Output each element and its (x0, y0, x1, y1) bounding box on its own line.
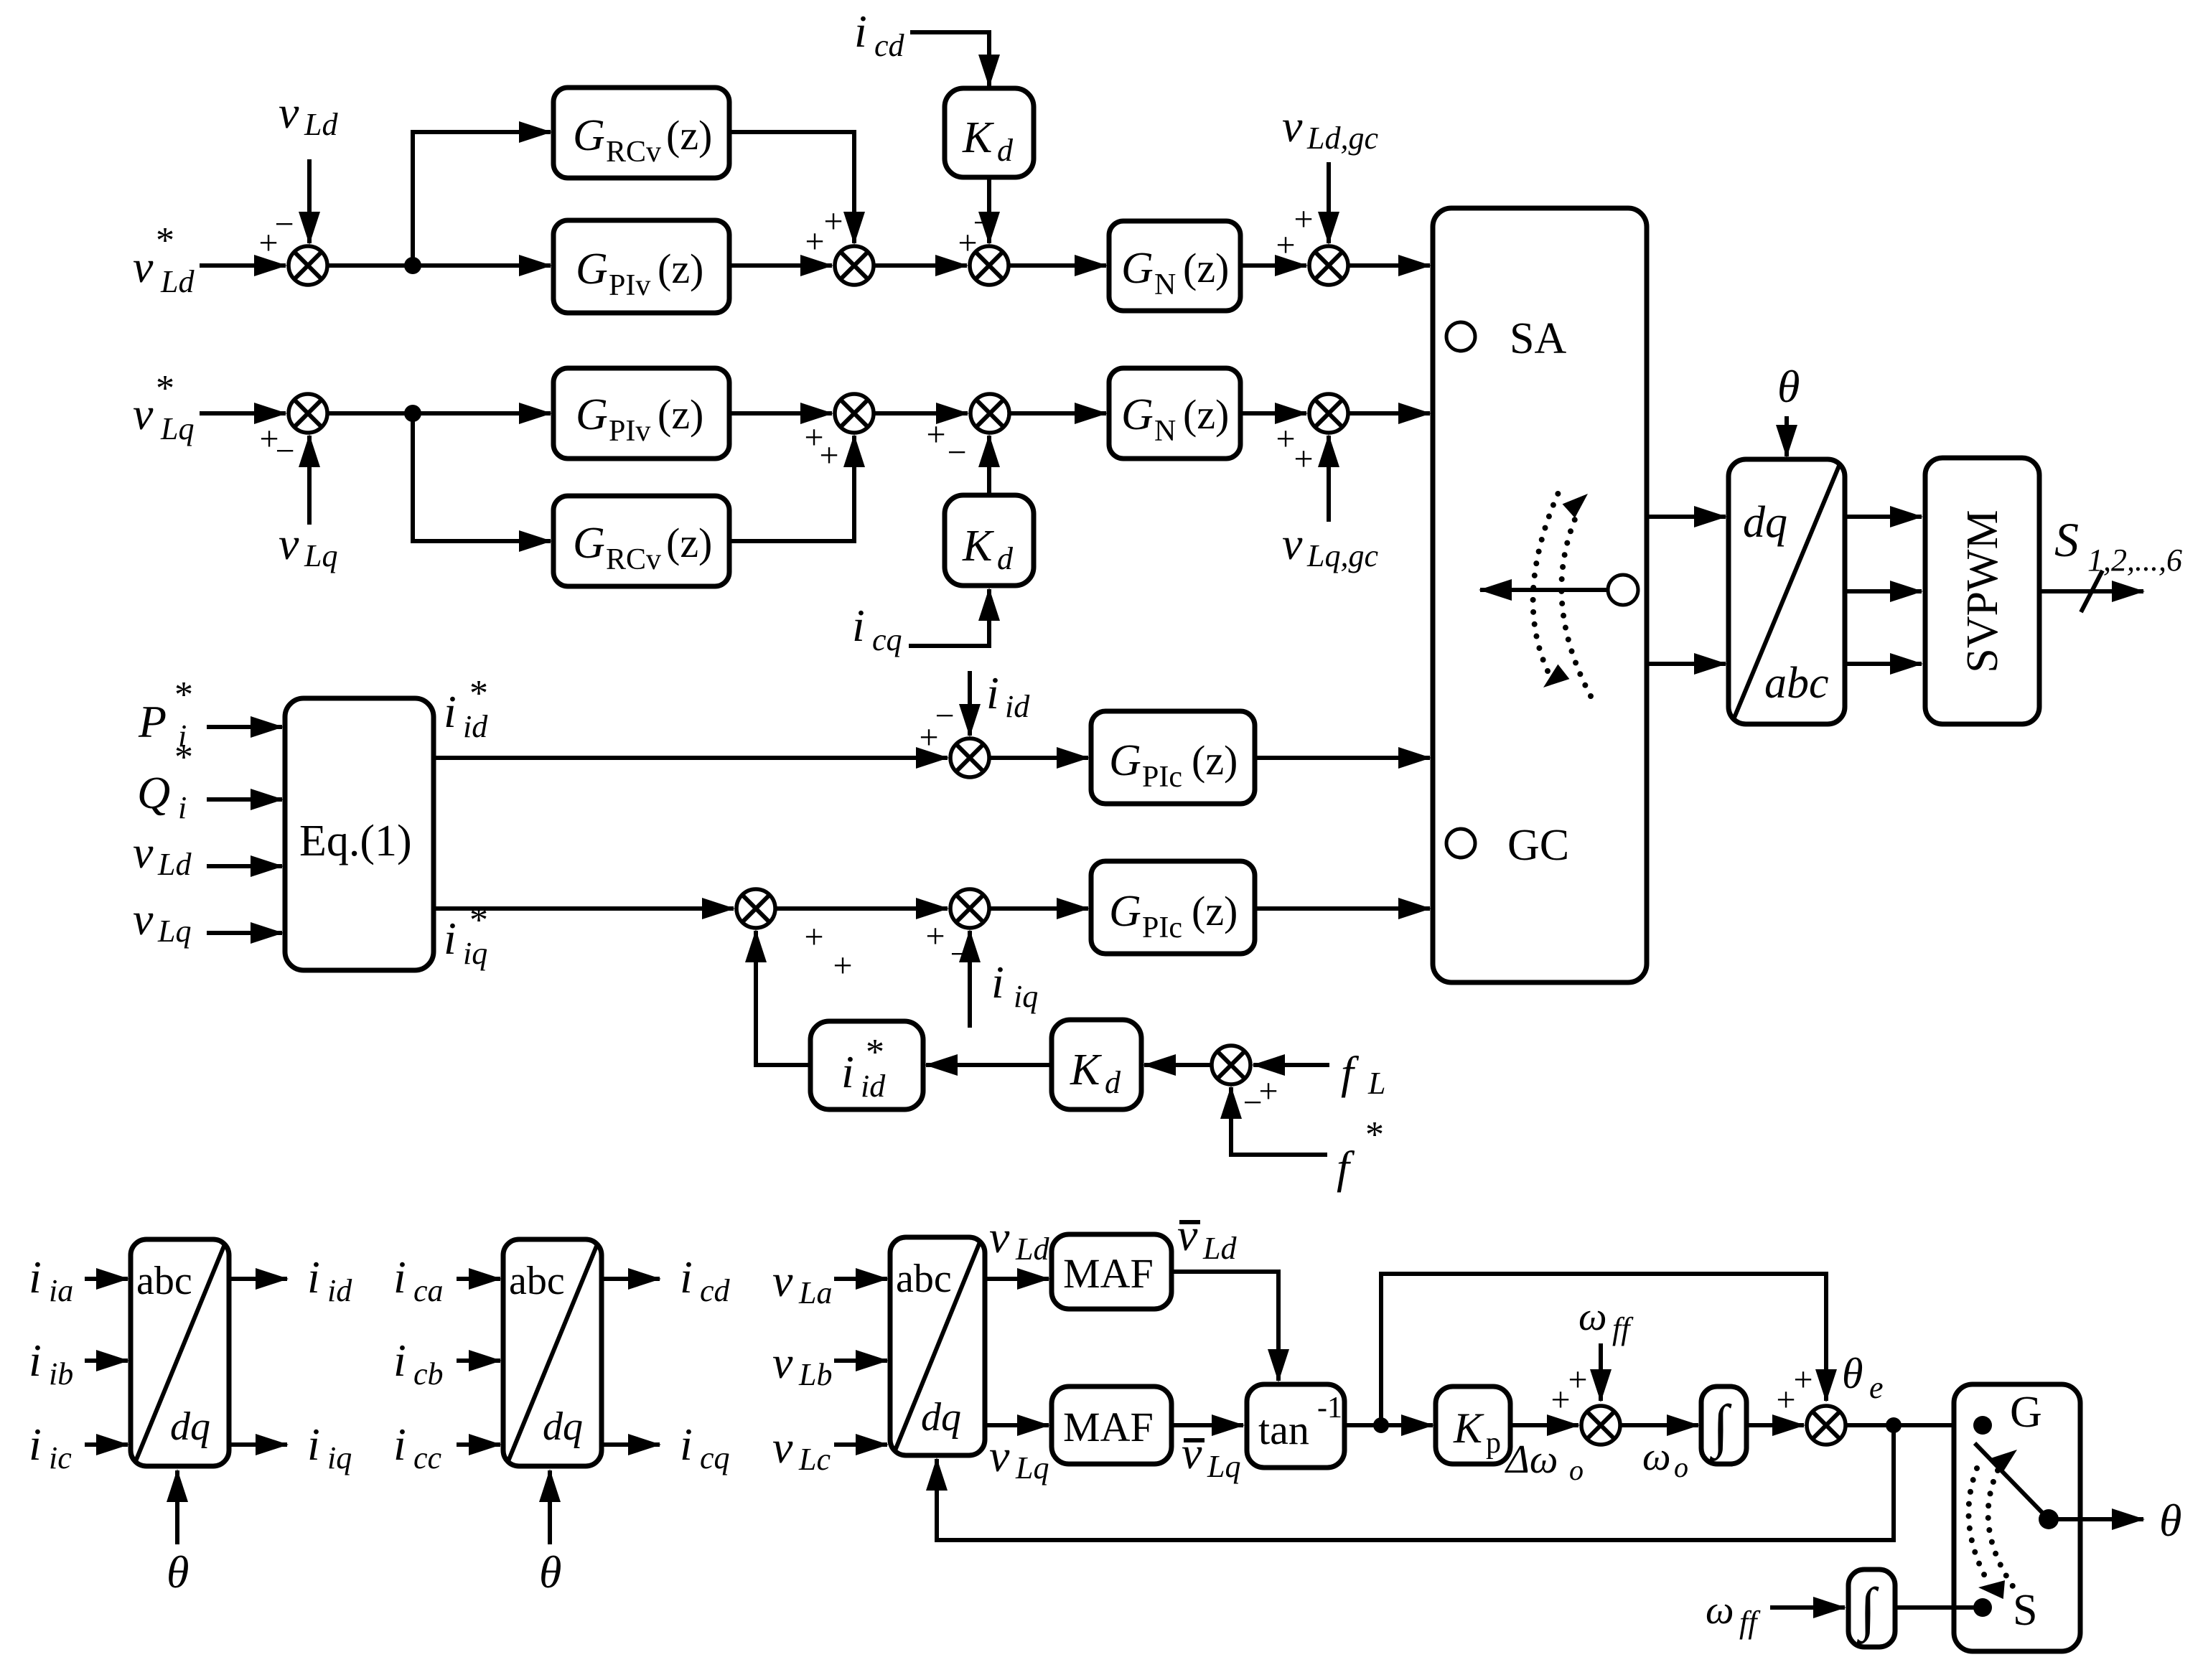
node label omega_o (1642, 1435, 1688, 1483)
wire MAF upper to tan-1 (down) (1171, 1272, 1278, 1381)
svg-text:+: + (1294, 200, 1313, 238)
svg-text:+: + (804, 918, 823, 956)
svg-text:Δω: Δω (1505, 1437, 1558, 1482)
node label v_Lq (block3 output) (989, 1430, 1049, 1486)
svg-text:Ld: Ld (160, 264, 195, 299)
node label f* (1337, 1114, 1384, 1193)
svg-text:Ld: Ld (1202, 1231, 1237, 1266)
svg-text:Lb: Lb (798, 1357, 832, 1392)
wire selector to dq/abc lower (1647, 662, 1726, 666)
svg-text:N: N (1154, 268, 1176, 301)
wire S10 to switch G contact (1846, 1423, 1975, 1427)
wire i_iq up into S7 (968, 931, 972, 1028)
summing junction S8 (1212, 1046, 1278, 1122)
svg-text:ca: ca (413, 1273, 444, 1308)
wire integrator lower to switch S contact (1895, 1605, 1975, 1610)
node label i_iq (991, 957, 1038, 1014)
svg-text:i: i (29, 1252, 42, 1303)
svg-text:θ: θ (1842, 1350, 1863, 1397)
wire v_Lc into abc/dq block3 (834, 1442, 887, 1447)
block dq/abc transform (1729, 459, 1845, 724)
svg-text:−: − (1243, 1084, 1262, 1122)
svg-text:θ: θ (1777, 361, 1800, 412)
svg-text:d: d (997, 133, 1014, 168)
wire S7 to block G_PIc row2 (988, 906, 1088, 911)
svg-text:θ: θ (167, 1547, 189, 1597)
block G_PIv(z) row2 (553, 368, 729, 459)
wire G_PIc row2 to mode selector (1255, 906, 1430, 911)
wire integrator to theta_e summing junction S10 (1746, 1423, 1804, 1427)
wire branch up to G_RCv row1 (413, 132, 551, 266)
block K_d droop (1052, 1020, 1141, 1109)
svg-text:o: o (1569, 1454, 1584, 1486)
svg-text:tan: tan (1258, 1407, 1309, 1453)
svg-text:dq: dq (1743, 498, 1787, 547)
svg-text:id: id (327, 1273, 352, 1308)
svg-text:abc: abc (1764, 659, 1829, 708)
switch dotted arc upper (1968, 1442, 2023, 1577)
svg-text:cd: cd (700, 1273, 731, 1308)
svg-text:ia: ia (49, 1273, 73, 1308)
summing junction S4b (1276, 394, 1348, 478)
svg-text:+: + (925, 917, 945, 955)
wire summing junction S8 to K_d droop (1144, 1063, 1212, 1067)
wire i_cq to block K_d lower (909, 589, 989, 646)
svg-text:Lc: Lc (798, 1442, 831, 1477)
selector contact GC (1446, 821, 1569, 870)
wire i_id down into S5 (968, 671, 972, 736)
svg-text:v: v (279, 518, 299, 569)
block tan-1 (1247, 1384, 1344, 1468)
svg-text:iq: iq (1014, 979, 1038, 1014)
block G_N(z) row1 (1109, 221, 1240, 311)
node label v_Ld (279, 87, 338, 142)
block mode selector SA/GC (1433, 208, 1647, 982)
node label f_L (1341, 1047, 1385, 1101)
block abc/dq transform 2 (503, 1239, 602, 1466)
wire i_cb into abc/dq block2 (457, 1358, 500, 1363)
svg-text:PIc: PIc (1142, 761, 1182, 794)
selector dotted arc upper (1533, 489, 1570, 695)
svg-text:p: p (1486, 1427, 1501, 1460)
wire i_ia into abc/dq block1 (85, 1277, 128, 1281)
node label i_id (block1 output) (307, 1252, 352, 1308)
svg-text:i: i (680, 1252, 693, 1303)
summing junction S3 (958, 204, 1009, 285)
block SVPWM (1925, 458, 2039, 724)
svg-text:i: i (393, 1419, 406, 1470)
wire G_N row1 to summing junction S4 (1240, 263, 1306, 268)
wire omega_ff into integrator lower (1770, 1605, 1845, 1610)
wire i_cc into abc/dq block2 (457, 1442, 500, 1447)
wire theta into dq/abc block (1785, 416, 1789, 456)
svg-text:cq: cq (700, 1440, 730, 1475)
svg-text:v: v (133, 241, 154, 292)
svg-text:+: + (1568, 1361, 1587, 1399)
svg-text:(z): (z) (1192, 737, 1238, 784)
wire theta feedback down-left to block3 (937, 1425, 1894, 1540)
node label i_cd (854, 6, 905, 63)
node label i_ib (29, 1335, 73, 1392)
svg-text:i: i (178, 790, 187, 825)
svg-text:+: + (1276, 420, 1295, 458)
svg-text:θ: θ (2159, 1495, 2181, 1546)
wire v_Lb into abc/dq block3 (834, 1358, 887, 1363)
wire G_PIv row1 to S2 (729, 263, 832, 268)
wire i_ib into abc/dq block1 (85, 1358, 128, 1363)
wire v_La into abc/dq block3 (834, 1277, 887, 1281)
wire v_Ld into Eq.(1) (207, 864, 282, 868)
svg-text:+: + (1294, 440, 1313, 478)
junction node after S10 (1886, 1417, 1902, 1433)
block K_p (1436, 1386, 1510, 1464)
wire droop block to S6 (756, 931, 810, 1065)
svg-text:S: S (2054, 512, 2079, 567)
svg-text:v: v (1282, 518, 1303, 569)
svg-text:abc: abc (509, 1259, 565, 1303)
block abc/dq transform 3 (890, 1237, 985, 1455)
svg-text:G: G (576, 390, 608, 439)
svg-text:Ld: Ld (1015, 1231, 1049, 1267)
svg-text:−: − (935, 697, 954, 735)
svg-text:v: v (772, 1255, 793, 1306)
svg-text:Lq: Lq (1015, 1450, 1049, 1486)
wire theta into block1 (175, 1470, 179, 1544)
switch contact S (1973, 1586, 2037, 1635)
wire f_L into S8 (1253, 1063, 1329, 1067)
wire i_ca into abc/dq block2 (457, 1277, 500, 1281)
svg-text:θ: θ (539, 1547, 561, 1597)
block G_RCv(z) row1 (553, 88, 729, 178)
svg-text:abc: abc (136, 1259, 192, 1303)
svg-text:Q: Q (137, 767, 170, 818)
svg-text:o: o (1674, 1451, 1688, 1483)
svg-text:id: id (463, 709, 488, 744)
svg-text:i: i (29, 1335, 42, 1386)
block i*_id droop (810, 1021, 923, 1109)
svg-text:Lq: Lq (157, 914, 191, 949)
junction node after S1 (404, 257, 421, 274)
svg-text:−: − (275, 432, 294, 470)
wire K_d upper down into S3 (987, 177, 991, 243)
node label i_cc (393, 1419, 442, 1475)
svg-text:v: v (1177, 1209, 1198, 1260)
node label S_1,2,...,6 (2054, 512, 2182, 578)
node label i_cb (393, 1335, 444, 1392)
svg-text:∫: ∫ (1856, 1576, 1879, 1644)
wire S1b to block G_PIv row2 (327, 411, 551, 416)
svg-text:v: v (133, 893, 154, 944)
svg-text:−: − (973, 204, 992, 242)
svg-text:Ld: Ld (157, 847, 192, 882)
wire dq/abc to SVPWM line2 (1845, 589, 1922, 593)
svg-text:Lq: Lq (1207, 1449, 1240, 1484)
svg-text:−: − (947, 433, 966, 471)
wire S2 to summing junction S3 (874, 263, 967, 268)
svg-text:PIv: PIv (609, 415, 650, 448)
svg-text:i: i (444, 686, 457, 737)
svg-text:G: G (573, 111, 605, 160)
node label v_Ld,gc (1282, 100, 1378, 156)
svg-text:id: id (861, 1069, 886, 1104)
svg-text:(z): (z) (1192, 888, 1238, 934)
node label theta_e (1842, 1350, 1884, 1405)
wire S4 to mode selector block (1348, 263, 1430, 268)
svg-text:N: N (1154, 415, 1176, 448)
wire block3 output v_Ld to MAF upper (985, 1277, 1049, 1281)
svg-text:*: * (866, 1032, 884, 1073)
svg-text:+: + (1793, 1361, 1813, 1399)
svg-text:iq: iq (463, 936, 487, 971)
node label i_cq (852, 600, 902, 657)
svg-text:cq: cq (872, 622, 902, 657)
wire G_RCv row1 to summing junction S2 (729, 132, 854, 243)
wire selector to dq/abc upper (1647, 515, 1726, 519)
summing junction S2b (804, 394, 874, 474)
svg-text:e: e (1869, 1370, 1884, 1405)
svg-text:*: * (174, 737, 193, 778)
svg-text:i: i (393, 1252, 406, 1303)
wire v*_Lq input to summing junction S1b (200, 411, 286, 416)
svg-text:(z): (z) (658, 245, 703, 292)
switch arm with pivot (1975, 1443, 2059, 1529)
wire G_PIv row2 to summing junction S2b (729, 411, 832, 416)
summing junction S7 (925, 889, 989, 973)
selector switch arm (1480, 575, 1638, 605)
wire tan-1 node up to theta_e junction (feed-forward) (1381, 1274, 1826, 1425)
block G_N(z) row2 (1109, 368, 1240, 459)
block abc/dq transform 1 (131, 1239, 229, 1466)
node label vbar_Ld (1177, 1209, 1237, 1266)
svg-text:v: v (133, 827, 154, 878)
svg-text:Ld: Ld (304, 107, 338, 142)
wire v_Lq into Eq.(1) (207, 931, 282, 935)
node label v_Ld (Eq input) (133, 827, 192, 882)
wire K_d lower up into S3b (987, 436, 991, 495)
summing junction S4 (1276, 200, 1348, 285)
svg-text:G: G (1121, 390, 1154, 439)
svg-text:i: i (841, 1046, 854, 1097)
svg-text:Lq: Lq (160, 411, 194, 446)
node label v*_Ld (133, 220, 195, 299)
block MAF upper (1052, 1234, 1171, 1309)
node label i*_id (Eq output upper) (444, 673, 488, 744)
wire block1 output i_id (229, 1277, 287, 1281)
svg-text:RCv: RCv (606, 543, 661, 576)
svg-text:iq: iq (327, 1440, 352, 1475)
node label P*_i (138, 675, 193, 754)
svg-text:v: v (133, 388, 154, 439)
node label v_Ld (block3 output) (989, 1211, 1049, 1267)
switch dotted arc lower (1978, 1470, 2016, 1599)
wire f* up into S8 (1231, 1087, 1327, 1155)
summing junction S6 (736, 889, 853, 985)
svg-text:G: G (1121, 244, 1154, 293)
wire G_RCv row2 up into S2b (729, 436, 854, 541)
node label i*_iq (Eq output lower) (444, 900, 488, 971)
switch contact G (1973, 1388, 2042, 1437)
svg-text:dq: dq (543, 1404, 583, 1449)
svg-text:cd: cd (874, 28, 905, 63)
node label Delta_omega_o (1505, 1437, 1584, 1486)
wire K_p to omega summing junction S9 (1510, 1423, 1578, 1427)
node label i_ia (29, 1252, 73, 1308)
wire G_PIc row1 to mode selector (1255, 756, 1430, 760)
svg-text:i: i (29, 1419, 42, 1470)
svg-text:cc: cc (413, 1440, 442, 1475)
summing junction S1b (259, 394, 327, 470)
svg-text:ω: ω (1642, 1435, 1671, 1479)
node label v_Lq (279, 518, 337, 573)
wire dq/abc to SVPWM line3 (1845, 662, 1922, 666)
block K_d upper (945, 88, 1034, 177)
summing junction S9 (1550, 1361, 1620, 1445)
svg-text:+: + (805, 222, 824, 261)
wire v_Ld,gc down into S4 (1327, 162, 1331, 243)
svg-text:Ld,gc: Ld,gc (1306, 121, 1378, 156)
svg-text:i: i (854, 6, 867, 57)
wire Eq.(1) i*_iq to summing junction S6 (434, 906, 734, 911)
svg-text:ic: ic (49, 1440, 72, 1475)
wire S5 to block G_PIc row1 (988, 756, 1088, 760)
node label omega_ff (upper) (1578, 1295, 1634, 1346)
svg-text:1,2,...,6: 1,2,...,6 (2087, 543, 2182, 578)
svg-text:i: i (991, 957, 1004, 1008)
svg-text:(z): (z) (658, 391, 703, 438)
node label i_ic (29, 1419, 72, 1475)
wire S2b to summing junction S3b (874, 411, 968, 416)
svg-text:*: * (1365, 1114, 1384, 1155)
svg-text:P: P (138, 696, 167, 747)
svg-text:v: v (772, 1422, 793, 1473)
svg-text:ib: ib (49, 1356, 73, 1392)
svg-text:K: K (1070, 1046, 1103, 1094)
wire S3b to block G_N row2 (1009, 411, 1106, 416)
summing junction S1 (258, 205, 327, 285)
wire K_d droop to droop block (926, 1063, 1052, 1067)
block MAF lower (1052, 1386, 1171, 1464)
svg-text:i: i (444, 913, 457, 964)
svg-text:dq: dq (170, 1404, 210, 1449)
svg-text:−: − (274, 205, 294, 243)
svg-text:(z): (z) (1183, 391, 1229, 438)
wire tan-1 to K_p (1344, 1423, 1433, 1427)
node label i_iq (block1 output) (307, 1419, 352, 1475)
block grid/stand-alone switch (1954, 1384, 2080, 1651)
svg-text:SVPWM: SVPWM (1958, 510, 2007, 672)
block K_d lower (945, 495, 1034, 586)
junction node after S1b (404, 405, 421, 422)
wire S1 to block G_PIv row1 (327, 263, 551, 268)
svg-text:+: + (926, 416, 945, 454)
wire branch down to G_RCv row2 (413, 413, 551, 541)
wire Eq.(1) i*_id to summing junction S5 (434, 756, 948, 760)
wire S3 to block G_N row1 (1009, 263, 1106, 268)
svg-text:i: i (986, 667, 999, 718)
svg-text:(z): (z) (666, 112, 712, 159)
svg-text:K: K (1453, 1404, 1484, 1452)
svg-text:i: i (680, 1419, 693, 1470)
svg-text:dq: dq (921, 1395, 961, 1440)
node label v_Lb (772, 1337, 832, 1392)
svg-text:+: + (1276, 226, 1295, 264)
wire block3 output v_Lq to MAF lower (985, 1423, 1049, 1427)
svg-text:+: + (833, 947, 852, 985)
svg-text:id: id (1005, 689, 1030, 724)
summing junction S10 (1776, 1361, 1846, 1445)
svg-text:PIc: PIc (1142, 911, 1182, 944)
node label i_ca (393, 1252, 444, 1308)
svg-text:Lq: Lq (304, 538, 337, 573)
block integrator upper (1701, 1386, 1746, 1464)
summing junction S5 (919, 697, 989, 777)
selector contact SA (1446, 314, 1566, 363)
svg-text:abc: abc (896, 1257, 952, 1301)
wire Q*_i into Eq.(1) (207, 797, 282, 802)
wire switch output theta (2049, 1517, 2143, 1521)
node label i_cq (block2 output) (680, 1419, 730, 1475)
svg-text:G: G (2010, 1388, 2042, 1437)
wire dq/abc to SVPWM line1 (1845, 515, 1922, 519)
slash six-signal marker (2081, 571, 2103, 612)
svg-text:ω: ω (1578, 1295, 1607, 1339)
svg-text:i: i (393, 1335, 406, 1386)
svg-text:i: i (307, 1419, 320, 1470)
svg-text:K: K (962, 522, 995, 571)
block integrator lower (1848, 1569, 1895, 1647)
node label v_Lq (Eq input) (133, 893, 191, 949)
svg-text:+: + (819, 436, 838, 474)
svg-text:G: G (1109, 736, 1141, 785)
svg-text:G: G (576, 245, 608, 294)
svg-text:v: v (989, 1211, 1010, 1262)
svg-text:∫: ∫ (1709, 1393, 1732, 1461)
svg-text:Eq.(1): Eq.(1) (299, 817, 412, 865)
node label vbar_Lq (1182, 1427, 1240, 1484)
svg-text:RCv: RCv (606, 136, 661, 169)
node label v_Lq,gc (1282, 518, 1378, 573)
svg-text:d: d (1105, 1065, 1121, 1100)
node label omega_ff (lower) (1706, 1588, 1761, 1640)
wire v_Lq,gc up into S4b (1327, 436, 1331, 522)
svg-text:*: * (156, 368, 174, 409)
svg-text:La: La (798, 1275, 832, 1310)
block G_RCv(z) row2 (553, 496, 729, 586)
svg-text:cb: cb (413, 1356, 444, 1392)
svg-text:G: G (1109, 887, 1141, 936)
node label Q*_i (137, 737, 193, 825)
node label i_id (986, 667, 1030, 724)
wire theta into block2 (548, 1470, 552, 1544)
wire G_N row2 to summing junction S4b (1240, 411, 1306, 416)
svg-text:(z): (z) (1183, 245, 1229, 291)
wire S9 to integrator (1620, 1423, 1698, 1427)
svg-text:*: * (469, 900, 488, 941)
node label i_cd (block2 output) (680, 1252, 731, 1308)
wire v_Ld down into S1 (307, 159, 312, 243)
svg-text:*: * (156, 220, 174, 261)
svg-text:-1: -1 (1317, 1392, 1342, 1425)
wire P*_i into Eq.(1) (207, 725, 282, 729)
svg-text:S: S (2013, 1586, 2037, 1635)
svg-text:GC: GC (1507, 821, 1569, 870)
summing junction S2 (805, 202, 874, 285)
svg-text:PIv: PIv (609, 269, 650, 302)
block G_PIv(z) row1 (553, 220, 729, 313)
svg-text:MAF: MAF (1063, 1250, 1154, 1297)
block G_PIc(z) row1 (1091, 711, 1255, 804)
svg-text:*: * (469, 673, 488, 714)
